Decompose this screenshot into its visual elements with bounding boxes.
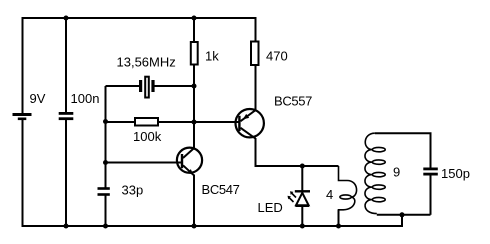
capacitor C2 33p — [98, 187, 110, 196]
transistor Q1 BC547 — [177, 148, 202, 176]
crystal X1 13,56MHz — [139, 77, 155, 98]
node L2 tap — [400, 212, 405, 217]
wire BC557 collector down and right to LED node and coil — [256, 138, 339, 166]
battery B1 9V — [13, 113, 32, 120]
inductor L1 4 turns — [339, 166, 357, 212]
wire 1k top — [193, 18, 195, 42]
node bottom emitter — [192, 224, 197, 229]
LED D1 — [288, 190, 311, 206]
node bottom L1 — [336, 224, 341, 229]
wire 100k row to BC557 base — [106, 121, 241, 123]
wire 33p bottom — [105, 196, 107, 227]
wire left node vertical to 33p — [105, 86, 107, 188]
svg-text:4: 4 — [326, 187, 333, 202]
svg-text:LED: LED — [258, 200, 283, 215]
wire BC547 base row — [106, 162, 182, 164]
svg-text:13,56MHz: 13,56MHz — [117, 55, 176, 70]
wire L1 bottom — [338, 210, 340, 226]
capacitor C1 100n — [59, 112, 74, 120]
wire L2 bottom row — [377, 214, 431, 216]
wire 1k bottom to crystal node down to BC547 collector — [193, 66, 195, 149]
svg-text:100n: 100n — [71, 91, 100, 106]
wire top rail — [23, 18, 256, 113]
wire LED top — [301, 166, 303, 191]
wire C150p bottom down — [430, 176, 432, 215]
capacitor C3 150p — [423, 168, 438, 176]
node bottom 100n — [64, 224, 69, 229]
svg-text:9: 9 — [393, 165, 400, 180]
svg-text:9V: 9V — [30, 91, 46, 106]
transistor Q2 BC557 — [236, 109, 264, 139]
node crystal left — [103, 119, 108, 124]
wire crystal left — [106, 85, 140, 87]
node LED top — [300, 164, 305, 169]
svg-text:100k: 100k — [133, 129, 162, 144]
wire bottom rail — [23, 120, 403, 226]
svg-text:BC557: BC557 — [274, 94, 312, 109]
wire 100n top — [65, 18, 67, 113]
wire 100n bottom — [65, 120, 67, 226]
resistor R1 1k — [191, 42, 198, 65]
resistor R3 100k — [135, 118, 158, 126]
node bottom 33p — [103, 224, 108, 229]
node BC547 base — [103, 160, 108, 165]
node top 100n — [64, 16, 69, 21]
svg-text:150p: 150p — [441, 166, 470, 181]
node top 1k — [192, 16, 197, 21]
node crystal right — [192, 84, 197, 89]
inductor L2 9 turns — [365, 133, 385, 213]
node 100k right — [192, 120, 197, 125]
wire LED bottom — [301, 206, 303, 226]
wire L2 top to C150p — [375, 133, 431, 167]
wire 470 to BC557 emitter — [255, 66, 257, 111]
node bottom LED — [300, 224, 305, 229]
svg-text:33p: 33p — [122, 183, 144, 198]
svg-text:BC547: BC547 — [202, 182, 240, 197]
svg-text:1k: 1k — [205, 49, 219, 64]
resistor R2 470 — [251, 42, 259, 66]
svg-text:470: 470 — [266, 49, 288, 64]
wire crystal right — [155, 85, 195, 87]
wire BC547 emitter down — [193, 175, 195, 227]
